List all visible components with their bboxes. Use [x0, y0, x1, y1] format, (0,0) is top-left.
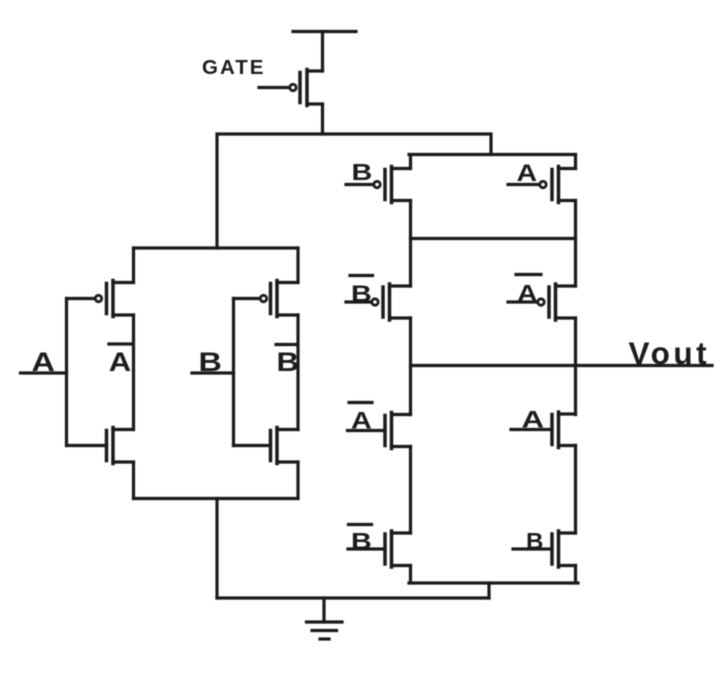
- wire right branch rail segment r1: [574, 155, 577, 169]
- svg-text:A: A: [109, 348, 131, 378]
- wire left branch rail segment r3: [409, 318, 412, 415]
- node Bbar (inverter B output): [296, 315, 299, 430]
- svg-text:A: A: [522, 406, 545, 433]
- svg-text:B: B: [352, 159, 373, 186]
- transistor A-inverter NMOS: [67, 428, 134, 464]
- wire left branch rail segment r1: [409, 155, 412, 169]
- right network top rail: [409, 153, 576, 156]
- label Bbar (left block): [276, 345, 299, 378]
- svg-text:Vout: Vout: [629, 335, 711, 371]
- wire B NMOS source to bottom rail: [296, 462, 299, 499]
- left block bottom rail: [134, 497, 299, 500]
- svg-text:B: B: [351, 280, 372, 307]
- wire input B lead: [192, 371, 234, 374]
- transistor B-inverter NMOS: [234, 428, 299, 464]
- wire A inverter gate rail: [65, 299, 68, 446]
- label Abar (row3 left): [349, 403, 372, 434]
- transistor B-inverter PMOS: [234, 281, 299, 317]
- transistor N2 gate A (row3 right): [511, 412, 576, 448]
- label Abar (row2 right): [516, 275, 541, 307]
- wire A PMOS source to top rail: [132, 248, 135, 283]
- svg-text:A: A: [517, 159, 538, 186]
- right network bottom rail: [409, 581, 578, 584]
- wire B inverter gate rail: [232, 299, 235, 446]
- svg-text:B: B: [526, 529, 543, 554]
- wire right branch rail segment r3: [574, 318, 577, 415]
- node Vout line: [411, 364, 713, 367]
- transistor GATE PMOS M0: [259, 70, 323, 106]
- ground symbol: [307, 598, 343, 639]
- svg-text:A: A: [517, 280, 538, 307]
- svg-text:A: A: [351, 407, 372, 434]
- wire right branch rail segment r4: [574, 446, 577, 534]
- label Bbar (row4 left): [349, 525, 372, 555]
- transistor P3 gate Bbar (row2 left): [346, 284, 411, 320]
- wire left block to ground rail: [215, 499, 218, 599]
- node Abar (inverter A output): [132, 315, 135, 430]
- transistor A-inverter PMOS: [67, 281, 134, 317]
- wire ground rail: [217, 596, 489, 599]
- wire M0 drain to node N1: [321, 104, 324, 134]
- wire right branch rail segment r2: [574, 201, 577, 287]
- wire VDD stem: [321, 32, 324, 72]
- label Bbar (row2 left): [350, 276, 373, 307]
- node N2 connector between branches: [411, 237, 576, 240]
- transistor P2 gate A (row1 right): [508, 167, 576, 203]
- wire B PMOS source to top rail: [296, 248, 299, 283]
- transistor P1 gate B (row1 left): [346, 167, 411, 203]
- transistor N3 gate Bbar (row4 left): [348, 531, 411, 567]
- svg-text:B: B: [351, 528, 372, 555]
- wire A NMOS source to bottom rail: [132, 462, 135, 499]
- wire node N1 horizontal: [217, 134, 491, 248]
- label Abar (left block): [109, 344, 132, 377]
- wire jog bottom rail to ground rail: [487, 583, 490, 598]
- left block top rail: [134, 246, 299, 249]
- wire left branch rail segment r4: [409, 447, 412, 534]
- VDD supply bar: [293, 30, 356, 33]
- transistor P4 gate Abar (row2 right): [508, 284, 576, 320]
- svg-text:GATE: GATE: [202, 56, 265, 79]
- wire input A lead: [21, 371, 67, 374]
- transistor N1 gate Abar (row3 left): [348, 413, 411, 449]
- transistor N4 gate B (row4 right): [513, 531, 576, 567]
- wire left branch to bottom rail: [409, 566, 412, 584]
- wire right branch to bottom rail: [574, 566, 577, 584]
- svg-text:B: B: [277, 348, 299, 378]
- wire left branch rail segment r2: [409, 201, 412, 287]
